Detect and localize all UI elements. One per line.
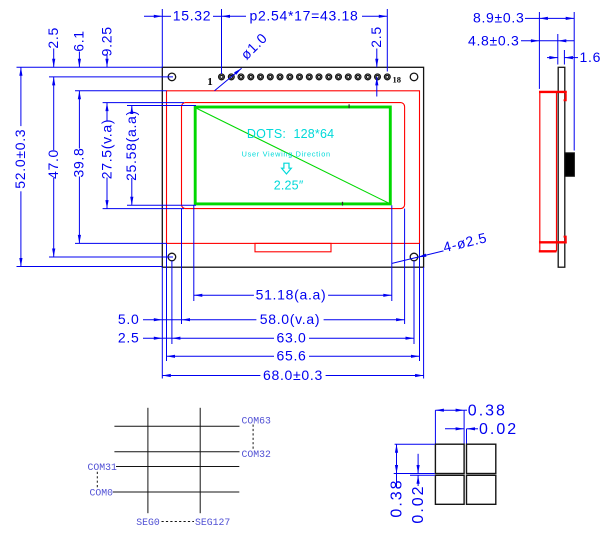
ext line hole row bottom-left bbox=[49, 256, 173, 258]
dimension 47.0 (hole to hole vertical) bbox=[45, 77, 61, 257]
mounting hole bottom-left bbox=[168, 253, 176, 261]
SEG0 column line bbox=[147, 408, 149, 513]
center mark bottom bbox=[342, 202, 344, 206]
dimension 9.25 (top edge to viewing area) bbox=[98, 26, 114, 111]
viewing area outline bbox=[182, 103, 405, 209]
ext line module bottom-left bbox=[17, 266, 163, 268]
dimension 27.5(v.a) viewing height bbox=[98, 103, 114, 209]
extension line pin18 bbox=[386, 9, 388, 72]
dimension 58.0(v.a) viewing width bbox=[182, 311, 405, 327]
COM63 label bbox=[242, 416, 272, 427]
COM0 label bbox=[90, 487, 114, 498]
svg-text:SEG127: SEG127 bbox=[195, 517, 230, 528]
ext line bezel top-left bbox=[75, 90, 167, 92]
extension line module-left top bbox=[161, 9, 163, 67]
dimension 4.8&#177;0.3 bezel-to-PCB bbox=[468, 32, 574, 48]
ext line viewing top-left bbox=[103, 102, 184, 104]
pin holes 1-18 row bbox=[219, 74, 391, 80]
pin 18 label bbox=[393, 75, 402, 85]
svg-text:1.6: 1.6 bbox=[580, 49, 602, 65]
viewing direction hollow arrow bbox=[282, 163, 292, 174]
ext line dot gap left bbox=[463, 410, 465, 443]
ext line bezel front bbox=[538, 12, 540, 89]
ext line active top-left bbox=[127, 105, 196, 107]
svg-text:2.5: 2.5 bbox=[45, 27, 61, 49]
ext line dot top bbox=[395, 443, 435, 445]
side view bezel profile bbox=[539, 91, 567, 252]
LCD module PCB outline bbox=[162, 67, 423, 267]
ext line module-right bottom bbox=[423, 267, 425, 378]
DOTS label bbox=[247, 127, 334, 141]
pin hole diameter leader &#248;1.0 bbox=[215, 30, 271, 91]
dashed link COM63-COM32 bbox=[252, 425, 254, 450]
svg-text:COM0: COM0 bbox=[90, 487, 114, 498]
svg-text:5.0: 5.0 bbox=[118, 311, 140, 327]
dimension 68.0&#177;0.3 module width bbox=[162, 367, 423, 383]
svg-text:25.58(a.a): 25.58(a.a) bbox=[123, 110, 139, 181]
svg-text:User Viewing Direction: User Viewing Direction bbox=[242, 150, 331, 159]
center mark top bbox=[348, 104, 350, 108]
dimension 51.18(a.a) active width bbox=[194, 287, 392, 303]
svg-text:0.02: 0.02 bbox=[410, 484, 427, 523]
svg-text:68.0±0.3: 68.0±0.3 bbox=[263, 367, 323, 383]
svg-text:0.02: 0.02 bbox=[479, 421, 518, 438]
dimension 25.58(a.a) active height bbox=[123, 106, 139, 206]
svg-text:47.0: 47.0 bbox=[45, 149, 61, 179]
extension line pin1 bbox=[221, 9, 223, 74]
dimension 5.0 (edge to viewing) bbox=[118, 311, 182, 327]
active area (display) outline bbox=[195, 107, 390, 204]
ext line viewing-right bottom bbox=[404, 209, 406, 324]
dimension 39.8 (bezel height) bbox=[71, 91, 87, 244]
svg-text:18: 18 bbox=[393, 75, 402, 85]
svg-text:2.25″: 2.25″ bbox=[274, 178, 304, 192]
dimension 0.02 dot gap bbox=[445, 421, 518, 438]
ext line active-left bottom bbox=[193, 205, 195, 301]
side view backlight bump bbox=[565, 153, 575, 177]
ext line PCB back bbox=[563, 50, 565, 65]
ext line module-left bottom bbox=[161, 267, 163, 378]
svg-text:39.8: 39.8 bbox=[71, 147, 87, 177]
svg-text:p2.54*17=43.18: p2.54*17=43.18 bbox=[249, 8, 358, 24]
dimension 2.5 (top edge to hole center) bbox=[45, 27, 61, 85]
ext line hole-left bottom bbox=[171, 261, 173, 344]
ext line PCB front bbox=[557, 34, 559, 65]
SEG127 column line bbox=[199, 408, 201, 513]
svg-text:65.6: 65.6 bbox=[276, 348, 306, 364]
ext line viewing-left bottom bbox=[181, 209, 183, 324]
ext line bezel bottom-left bbox=[75, 242, 167, 244]
dimension 0.38 dot width bbox=[435, 402, 507, 419]
dimension 15.32 (left edge to pin1) bbox=[144, 8, 222, 24]
user viewing direction label bbox=[242, 150, 331, 159]
ext line hole-right bottom bbox=[413, 261, 415, 344]
dot square top-right bbox=[467, 444, 496, 473]
COM31 row line bbox=[116, 466, 239, 468]
SEG0 label bbox=[136, 517, 160, 528]
svg-text:52.0±0.3: 52.0±0.3 bbox=[12, 129, 28, 189]
svg-text:58.0(v.a): 58.0(v.a) bbox=[260, 311, 321, 327]
dimension 0.02 dot vertical gap bbox=[410, 454, 427, 524]
ext line dot gap bottom bbox=[410, 474, 435, 476]
ext line viewing bottom-left bbox=[103, 208, 184, 210]
dimension 2.5 (edge to hole) bbox=[118, 330, 172, 346]
dot square bottom-right bbox=[467, 475, 496, 504]
COM32 label bbox=[242, 449, 272, 460]
side view PCB bbox=[558, 67, 565, 267]
mounting hole top-left bbox=[168, 73, 176, 81]
mounting hole bottom-right bbox=[410, 253, 418, 261]
ext line bezel-left bottom bbox=[166, 243, 168, 361]
dot square top-left bbox=[435, 444, 464, 473]
dimension 63.0 hole spacing bbox=[172, 330, 414, 346]
ext line bezel-right bottom bbox=[419, 243, 421, 361]
dot square bottom-left bbox=[435, 475, 464, 504]
svg-text:SEG0: SEG0 bbox=[136, 517, 160, 528]
display size label bbox=[274, 178, 304, 192]
COM63 row line bbox=[114, 425, 239, 427]
svg-text:COM31: COM31 bbox=[88, 462, 118, 473]
dimension 1.6 PCB thickness bbox=[547, 49, 601, 65]
svg-text:27.5(v.a): 27.5(v.a) bbox=[98, 119, 114, 180]
svg-text:1: 1 bbox=[207, 76, 213, 88]
svg-text:4.8±0.3: 4.8±0.3 bbox=[468, 32, 520, 48]
dimension 2.5 (top edge to pin row) bbox=[368, 26, 384, 96]
dimension 65.6 bezel width bbox=[167, 348, 420, 364]
dimension 8.9&#177;0.3 total thickness bbox=[473, 10, 574, 26]
ext line active bottom-left bbox=[127, 204, 196, 206]
svg-text:2.5: 2.5 bbox=[118, 330, 140, 346]
SEG127 label bbox=[195, 517, 230, 528]
svg-text:15.32: 15.32 bbox=[173, 8, 212, 24]
bezel frame outline bbox=[167, 91, 420, 244]
svg-text:51.18(a.a): 51.18(a.a) bbox=[256, 287, 327, 303]
ext line module top-left bbox=[17, 66, 163, 68]
mounting holes leader 4-&#248;2.5 bbox=[392, 229, 489, 263]
svg-text:2.5: 2.5 bbox=[368, 26, 384, 48]
ext line active-right bottom bbox=[391, 205, 393, 301]
svg-text:COM63: COM63 bbox=[242, 416, 272, 427]
dimension 6.1 (top edge to bezel) bbox=[71, 30, 87, 99]
ext line dot left bbox=[434, 410, 436, 443]
COM31 label bbox=[88, 462, 118, 473]
bezel bottom tab bbox=[255, 243, 331, 251]
COM0 row line bbox=[113, 491, 239, 493]
svg-text:0.38: 0.38 bbox=[389, 478, 406, 517]
svg-text:COM32: COM32 bbox=[242, 449, 272, 460]
dimension 0.38 dot height bbox=[389, 444, 406, 517]
svg-text:9.25: 9.25 bbox=[98, 26, 114, 56]
ext line dot gap right bbox=[466, 429, 468, 444]
ext line bump back bbox=[573, 12, 575, 151]
dashed link COM31-COM0 bbox=[96, 472, 98, 488]
svg-text:6.1: 6.1 bbox=[71, 30, 87, 52]
ext line dot gap top bbox=[394, 473, 435, 475]
mounting hole top-right bbox=[410, 73, 418, 81]
svg-text:63.0: 63.0 bbox=[276, 330, 306, 346]
ext line pin/hole row left bbox=[49, 76, 173, 78]
svg-text:8.9±0.3: 8.9±0.3 bbox=[473, 10, 525, 26]
svg-text:0.38: 0.38 bbox=[468, 402, 507, 419]
dimension 52.0&#177;0.3 (module height) bbox=[12, 67, 28, 266]
COM32 row line bbox=[114, 451, 239, 453]
dashed link SEG0-SEG127 bbox=[162, 521, 195, 523]
display diagonal line bbox=[197, 108, 391, 203]
dimension p2.54*17=43.18 (pin pitch) bbox=[222, 8, 388, 24]
svg-text:DOTS: 128*64: DOTS: 128*64 bbox=[247, 127, 334, 141]
pin 1 label bbox=[207, 76, 213, 88]
